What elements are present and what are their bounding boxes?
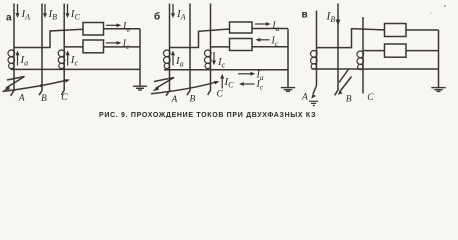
bottom return wire (diagram v) <box>312 68 439 70</box>
phase line C (diagram a) <box>61 4 64 96</box>
common return wire down (diagram b) <box>287 29 289 88</box>
relay box 1 (diagram b) <box>230 22 253 33</box>
fault lightning symbol (diagram b) <box>153 78 175 92</box>
phase line A (diagram a) <box>11 4 14 96</box>
fault current arrow (diagram b) <box>151 81 219 94</box>
wire from phase A tap to relay 1 (diagram v) <box>317 29 385 48</box>
svg-text:A: A <box>18 93 25 103</box>
svg-text:РИС. 9. ПРОХОЖДЕНИЕ ТОКОВ ПРИ: РИС. 9. ПРОХОЖДЕНИЕ ТОКОВ ПРИ ДВУХФАЗНЫХ… <box>99 112 316 118</box>
wire from phase C tap to relay 2 (diagram v) <box>363 50 385 52</box>
svg-text:A: A <box>301 93 308 103</box>
CT winding on phase A (diagram v) <box>311 51 318 58</box>
current arrow I_A (diagram a) <box>16 4 20 18</box>
fault lightning symbol (diagram a) <box>4 77 25 91</box>
wire relay 2 output (diagram v) <box>406 50 439 52</box>
wire relay 1 output (diagram b) <box>252 28 288 30</box>
secondary current arrow I_c down (diagram b) <box>212 52 216 65</box>
arrow I_a output (diagram b) <box>255 22 271 26</box>
current arrow I_A (diagram b) <box>171 4 175 18</box>
CT winding on phase C (diagram v) <box>357 51 364 58</box>
arrow I_C up on phase C (diagram b) <box>220 74 224 89</box>
paper speck 1 <box>444 5 446 7</box>
CT winding on phase C (diagram b) <box>205 50 212 57</box>
phase line C (diagram v) <box>362 17 364 94</box>
phase line B (diagram v) <box>335 4 338 96</box>
CT winding on phase A (diagram a) <box>8 50 15 57</box>
arrow I_c reverse (diagram b) <box>256 38 270 42</box>
relay box 2 (diagram v) <box>385 44 407 57</box>
secondary current arrow I_c (diagram a) <box>66 51 70 66</box>
wire from phase C tap to relay 2 (diagram b) <box>211 46 230 48</box>
secondary current arrow I_a (diagram b) <box>171 51 175 66</box>
ground (diagram a) <box>133 86 147 90</box>
fault arrow to ground on phase A (diagram v) <box>311 86 316 99</box>
CT winding on phase C (diagram a) <box>58 50 65 57</box>
current arrow I_B (diagram a) <box>43 4 47 18</box>
wire relay 2 output (diagram a) <box>104 46 141 48</box>
relay box 1 (diagram v) <box>385 24 407 37</box>
fault current arrow (diagram a) <box>3 79 71 91</box>
ground (diagram b) <box>281 88 295 92</box>
wire relay 2 output (diagram b) <box>252 46 288 48</box>
junction dot on phase B (diagram a) <box>40 84 43 87</box>
phase line C (diagram b) <box>208 4 211 96</box>
wire relay 1 output (diagram v) <box>406 29 439 31</box>
phase line A (diagram v) <box>316 11 318 86</box>
phase line A (diagram b) <box>166 4 169 96</box>
svg-text:C: C <box>217 90 224 100</box>
arrow I_c output (diagram a) <box>106 41 121 45</box>
phase line B (diagram a) <box>39 4 42 96</box>
svg-text:B: B <box>41 94 47 104</box>
common return wire down (diagram v) <box>438 30 440 87</box>
wire relay 1 output (diagram a) <box>104 28 141 30</box>
bottom return wire (diagram a) <box>11 68 140 70</box>
ground (diagram v) <box>431 88 445 92</box>
svg-text:в: в <box>302 10 308 21</box>
paper speck 2 <box>430 12 432 14</box>
svg-text:B: B <box>346 95 352 105</box>
arrow I_a output (diagram a) <box>106 23 121 27</box>
common return wire down (diagram a) <box>139 29 141 86</box>
relay box 2 (diagram a) <box>83 40 104 53</box>
phase line B (diagram b) <box>187 4 190 96</box>
ground under phase A (diagram v) <box>309 101 318 105</box>
bottom return wire (diagram b) <box>164 69 288 71</box>
svg-text:A: A <box>171 95 178 105</box>
secondary current arrow I_a (diagram a) <box>16 51 20 66</box>
svg-text:C: C <box>367 93 374 103</box>
wire from phase A tap to relay 1 (diagram a) <box>14 29 83 47</box>
CT winding on phase A (diagram b) <box>164 50 171 57</box>
wire from phase C tap to relay 2 (diagram a) <box>64 46 83 48</box>
wire from phase A tap to relay 1 (diagram b) <box>170 29 230 48</box>
relay box 1 (diagram a) <box>83 23 104 36</box>
current arrow I_C (diagram a) <box>66 4 70 18</box>
svg-text:б: б <box>154 11 160 23</box>
arrow I_c left (diagram b) <box>239 82 255 86</box>
relay box 2 (diagram b) <box>230 39 253 51</box>
arrow I_a right (diagram b) <box>238 72 255 76</box>
fault lightning symbol (diagram v) <box>338 69 352 95</box>
svg-text:C: C <box>61 93 68 103</box>
current arrow I_B on line (diagram v) <box>336 20 341 26</box>
svg-text:B: B <box>190 95 196 105</box>
svg-text:а: а <box>6 13 12 24</box>
